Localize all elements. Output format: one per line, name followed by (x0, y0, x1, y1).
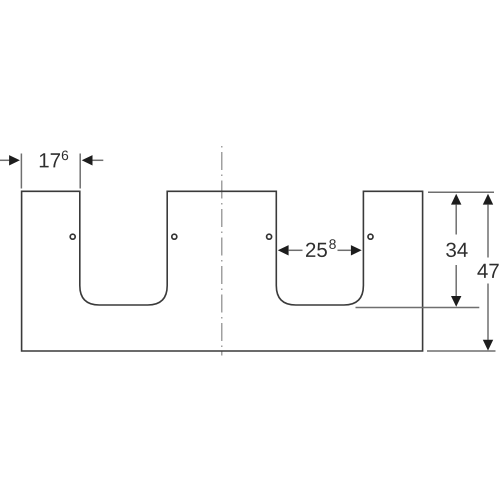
dim 47 lower segment (487, 284, 489, 340)
dim 17-6 right arrow (82, 155, 93, 165)
extension line top right (428, 191, 494, 193)
dim 34 upper segment (455, 205, 457, 235)
dim 34 lower segment (455, 265, 457, 296)
centerline (vertical dash-dot axis) (221, 144, 223, 356)
dim 17-6 left tail (0, 159, 9, 161)
dim 34 bottom arrow (451, 296, 461, 307)
dim 25-8 left arrow (278, 245, 289, 255)
dim 47 label (477, 264, 498, 278)
hole 2 (172, 234, 177, 239)
dim 47 bottom arrow (483, 340, 493, 351)
dim 25-8 superscript (329, 239, 335, 249)
dim 17-6 extension line right (79, 154, 81, 189)
dim 47 top arrow (483, 194, 493, 205)
hole 4 (368, 234, 373, 239)
dim 25-8 left segment (289, 249, 303, 251)
dim 25-8 right arrow (351, 245, 362, 255)
extension line mid right (34) (356, 307, 480, 309)
dim 17-6 label (40, 153, 60, 167)
dim 47 upper segment (487, 205, 489, 258)
dim 25-8 label (306, 243, 327, 258)
dim 25-8 right segment (338, 249, 351, 251)
dim 34 label (446, 243, 467, 258)
hole 1 (70, 234, 75, 239)
dim 17-6 extension line left (20, 154, 22, 189)
dim 17-6 right tail (93, 159, 104, 161)
dim 17-6 superscript (62, 150, 68, 160)
dim 34 top arrow (451, 194, 461, 205)
hole 3 (267, 234, 272, 239)
extension line bottom right (47) (427, 350, 496, 352)
panel outline with two U-cutouts (22, 191, 423, 351)
dim 17-6 left arrow (9, 155, 20, 165)
